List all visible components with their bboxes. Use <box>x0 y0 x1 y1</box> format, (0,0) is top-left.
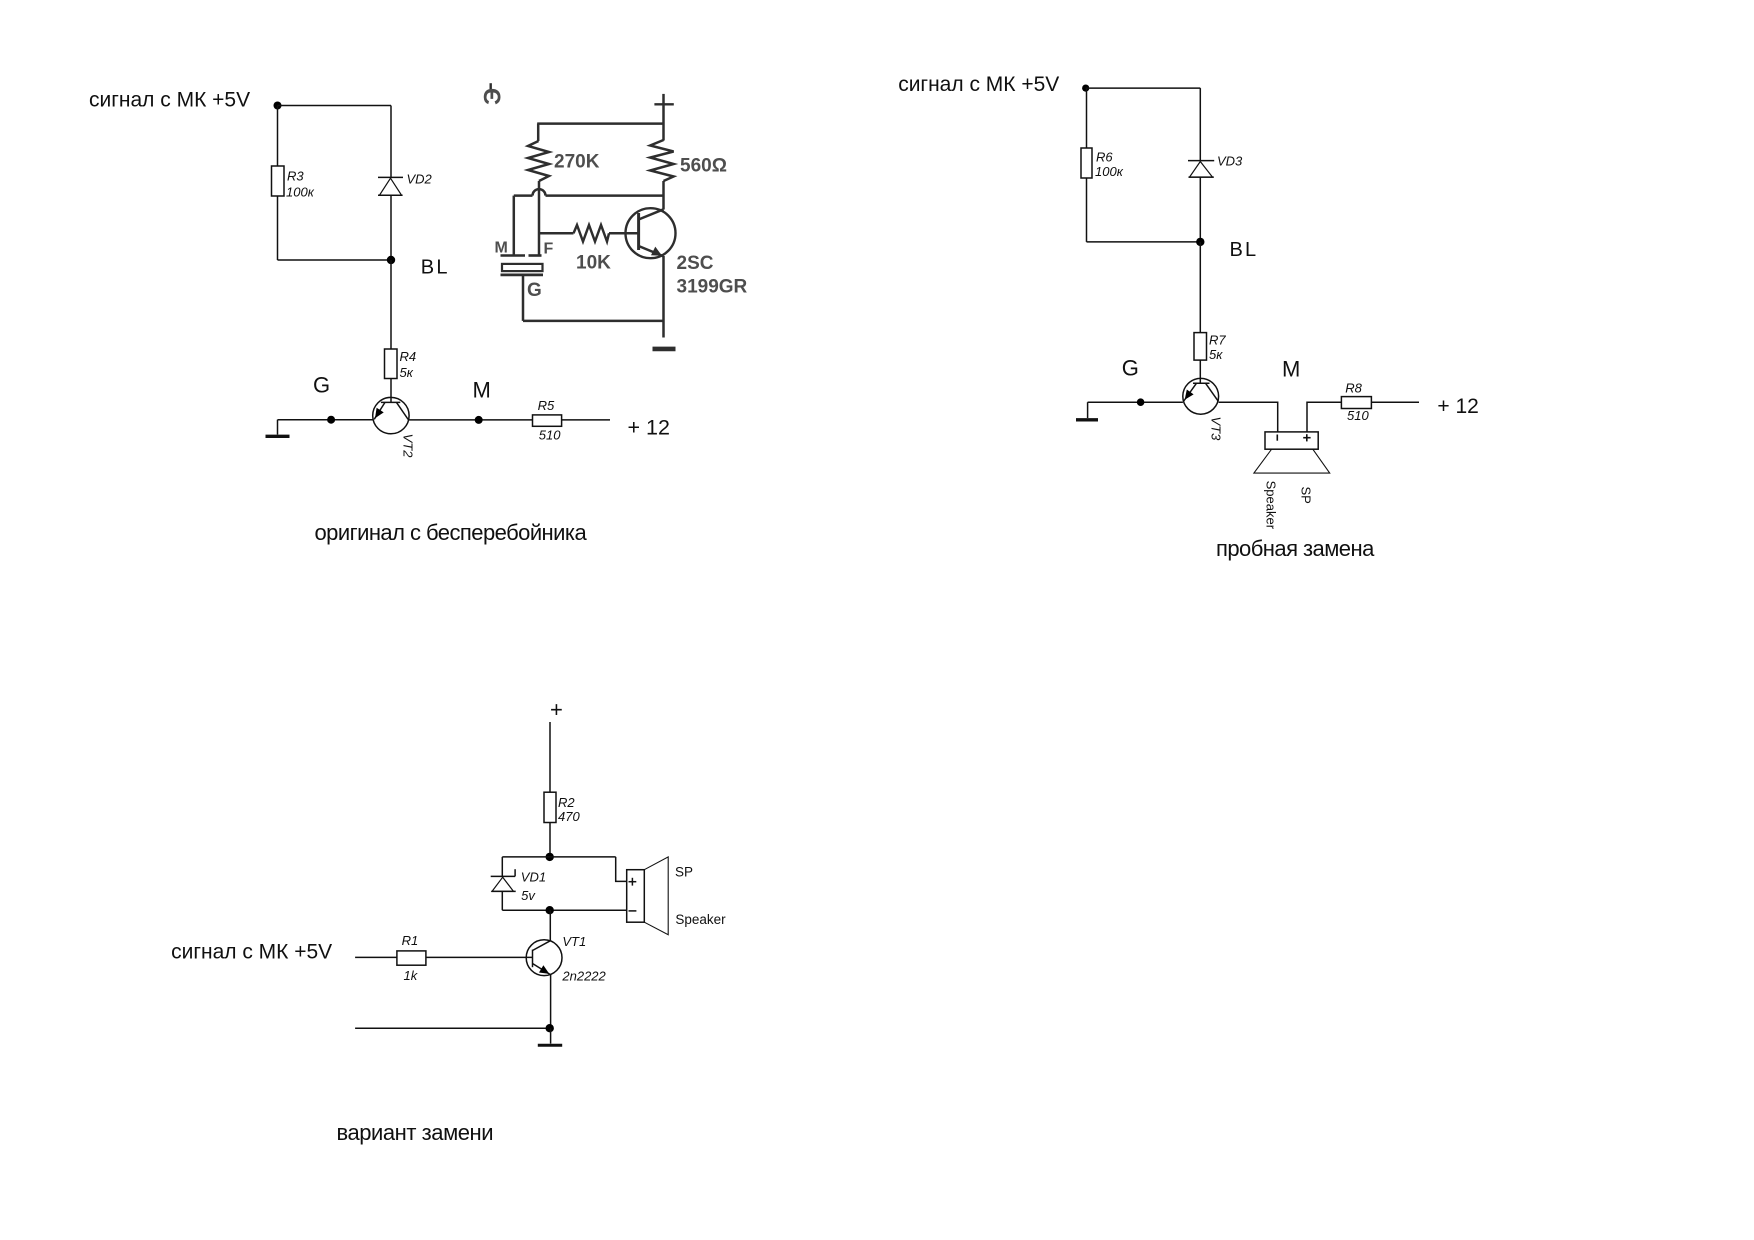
piezo disc <box>502 264 543 271</box>
wire R2 to junction <box>549 823 551 857</box>
wire R7 to VT3 <box>1199 360 1201 383</box>
wire R3 bottom lead <box>277 196 279 260</box>
resistor R4 <box>385 349 398 379</box>
wire signal to R1 <box>355 956 397 958</box>
wire G lead <box>522 275 525 321</box>
wire collector to R5 <box>409 419 532 421</box>
resistor R6 <box>1081 148 1092 178</box>
wire R5 to +12 <box>562 419 610 421</box>
wire VD2 top lead <box>390 106 392 178</box>
wire top horizontal <box>278 105 392 107</box>
wire to BL junction <box>1087 241 1201 243</box>
svg-text:G: G <box>313 373 330 398</box>
svg-text:R8: R8 <box>1345 380 1362 395</box>
wire collector to speaker minus <box>1219 402 1278 432</box>
wire bottom rail <box>523 320 664 323</box>
svg-text:сигнал с МК +5V: сигнал с МК +5V <box>898 73 1059 96</box>
piezo buzzer plates M F <box>501 254 542 257</box>
svg-text:+ 12: + 12 <box>628 416 670 440</box>
wire top horizontal <box>1086 87 1201 89</box>
resistor 560 <box>650 140 673 181</box>
svg-text:M: M <box>473 378 491 403</box>
svg-text:100к: 100к <box>286 185 315 200</box>
wire ground to VT3 <box>1088 401 1183 403</box>
ground right <box>1076 402 1098 420</box>
wire emitter down <box>662 256 665 338</box>
svg-text:Э: Э <box>480 88 507 105</box>
resistor R5 <box>533 415 562 426</box>
piezo plate G <box>501 273 544 276</box>
wire R8 to +12 <box>1371 401 1419 403</box>
zener diode VD1 <box>491 869 516 891</box>
svg-text:+: + <box>550 697 563 722</box>
wire M rail left <box>514 194 533 197</box>
svg-text:F: F <box>544 241 554 258</box>
wire collector vertical <box>549 910 551 941</box>
svg-text:R2: R2 <box>558 795 575 810</box>
wire R4 to VT2 base <box>390 379 392 403</box>
resistor 10K <box>574 225 610 242</box>
wire right branch to speaker plus <box>616 857 627 882</box>
svg-text:VD3: VD3 <box>1217 153 1243 168</box>
svg-text:M: M <box>495 240 508 257</box>
svg-text:5к: 5к <box>1209 347 1223 362</box>
svg-text:G: G <box>527 280 542 301</box>
wire VD1 top lead <box>501 857 503 877</box>
transistor VT3 <box>1183 378 1219 414</box>
svg-text:510: 510 <box>539 428 561 443</box>
node +5V signal input <box>274 102 282 110</box>
wire bottom rail to speaker minus <box>502 909 626 911</box>
svg-text:сигнал с МК +5V: сигнал с МК +5V <box>89 89 250 112</box>
speaker SP body <box>1265 432 1318 449</box>
svg-text:SP: SP <box>675 864 693 879</box>
svg-text:270K: 270K <box>554 152 600 173</box>
svg-text:сигнал с МК +5V: сигнал с МК +5V <box>171 941 332 964</box>
resistor 270K <box>528 141 549 181</box>
wire plus to rail <box>662 94 665 141</box>
wire hop over F line <box>533 189 546 195</box>
wire R6 top lead <box>1086 88 1088 148</box>
svg-text:пробная замена: пробная замена <box>1216 536 1375 561</box>
wire ground to emitter <box>278 419 373 421</box>
wire 270K to F <box>538 181 541 256</box>
wire R6 bottom lead <box>1086 178 1088 242</box>
diode VD2 <box>378 177 403 195</box>
svg-text:R4: R4 <box>400 349 417 364</box>
wire top rail bottom circuit <box>502 856 615 858</box>
node G junction right <box>1137 398 1145 406</box>
node BL right <box>1196 238 1204 246</box>
ground bottom <box>538 1028 562 1045</box>
svg-text:BL: BL <box>1230 239 1259 261</box>
transistor 2SC3199GR <box>626 208 676 258</box>
svg-text:BL: BL <box>421 257 450 279</box>
speaker cone <box>1254 449 1330 473</box>
svg-text:560Ω: 560Ω <box>680 156 727 177</box>
node M wire junction <box>475 416 483 424</box>
wire to node BL <box>278 259 392 261</box>
wire R1 to base <box>426 956 533 958</box>
resistor R3 <box>272 166 285 196</box>
resistor R2 <box>544 792 556 822</box>
svg-text:10K: 10K <box>576 253 611 274</box>
transistor VT2 <box>373 397 409 433</box>
svg-text:5v: 5v <box>521 888 536 903</box>
svg-text:R5: R5 <box>538 398 555 413</box>
svg-text:оригинал с бесперебойника: оригинал с бесперебойника <box>315 520 588 545</box>
svg-text:2SC: 2SC <box>677 253 714 274</box>
svg-text:G: G <box>1122 356 1139 381</box>
svg-text:3199GR: 3199GR <box>677 277 748 298</box>
resistor R7 <box>1194 333 1207 361</box>
resistor R1 <box>397 951 426 965</box>
diode VD3 <box>1188 161 1214 178</box>
wire R3 top lead <box>277 106 279 167</box>
svg-text:Speaker: Speaker <box>1264 481 1279 530</box>
svg-text:5к: 5к <box>400 365 414 380</box>
wire 10K to base <box>609 232 639 235</box>
svg-text:VT3: VT3 <box>1209 417 1224 442</box>
svg-text:2n2222: 2n2222 <box>561 968 606 983</box>
svg-text:1k: 1k <box>404 968 419 983</box>
wire top rail <box>537 122 663 125</box>
wire 10K lead left <box>539 232 574 235</box>
svg-text:R1: R1 <box>402 933 419 948</box>
svg-text:вариант замени: вариант замени <box>337 1120 494 1145</box>
wire VD3 bottom lead <box>1199 177 1201 242</box>
node emitter ground junction <box>546 1024 554 1032</box>
label Э (rotated) <box>490 83 492 90</box>
node BL junction <box>387 256 395 264</box>
speaker cone bottom <box>644 857 668 935</box>
wire bottom return <box>355 1027 550 1029</box>
node +5V input right <box>1082 85 1089 92</box>
wire 560 to collector <box>662 181 665 210</box>
svg-text:R6: R6 <box>1096 150 1113 165</box>
wire + to R2 <box>549 722 551 792</box>
ground middle <box>653 347 676 352</box>
wire BL to R4 <box>390 260 392 349</box>
svg-text:+ 12: + 12 <box>1437 395 1478 418</box>
svg-text:M: M <box>1282 357 1300 382</box>
svg-text:VT2: VT2 <box>400 434 415 459</box>
node G wire junction <box>327 416 335 424</box>
svg-text:VD1: VD1 <box>521 869 546 884</box>
wire BL to R7 <box>1199 242 1201 333</box>
svg-text:SP: SP <box>1299 487 1314 504</box>
svg-text:510: 510 <box>1347 408 1369 423</box>
wire VD2 bottom lead <box>390 195 392 260</box>
svg-text:Speaker: Speaker <box>675 912 726 927</box>
transistor VT1 <box>526 940 562 976</box>
svg-text:470: 470 <box>558 809 580 824</box>
wire rail to 270K <box>537 124 540 141</box>
resistor R8 <box>1341 397 1371 409</box>
wire M rail right <box>546 194 664 197</box>
wire VD1 bottom lead <box>501 891 503 910</box>
wire emitter down <box>550 975 552 1029</box>
ground <box>266 420 290 437</box>
svg-text:R7: R7 <box>1209 333 1226 348</box>
svg-text:VD2: VD2 <box>407 172 433 187</box>
wire speaker plus to R8 <box>1307 402 1341 432</box>
node VD1 top junction <box>546 853 554 861</box>
wire VD3 top lead <box>1199 88 1201 161</box>
svg-text:VT1: VT1 <box>562 934 586 949</box>
svg-text:100к: 100к <box>1095 164 1124 179</box>
power + terminal <box>654 103 673 105</box>
svg-text:R3: R3 <box>287 169 304 184</box>
node collector junction <box>546 906 554 914</box>
speaker SP body bottom <box>627 870 645 923</box>
wire M lead <box>513 196 516 256</box>
